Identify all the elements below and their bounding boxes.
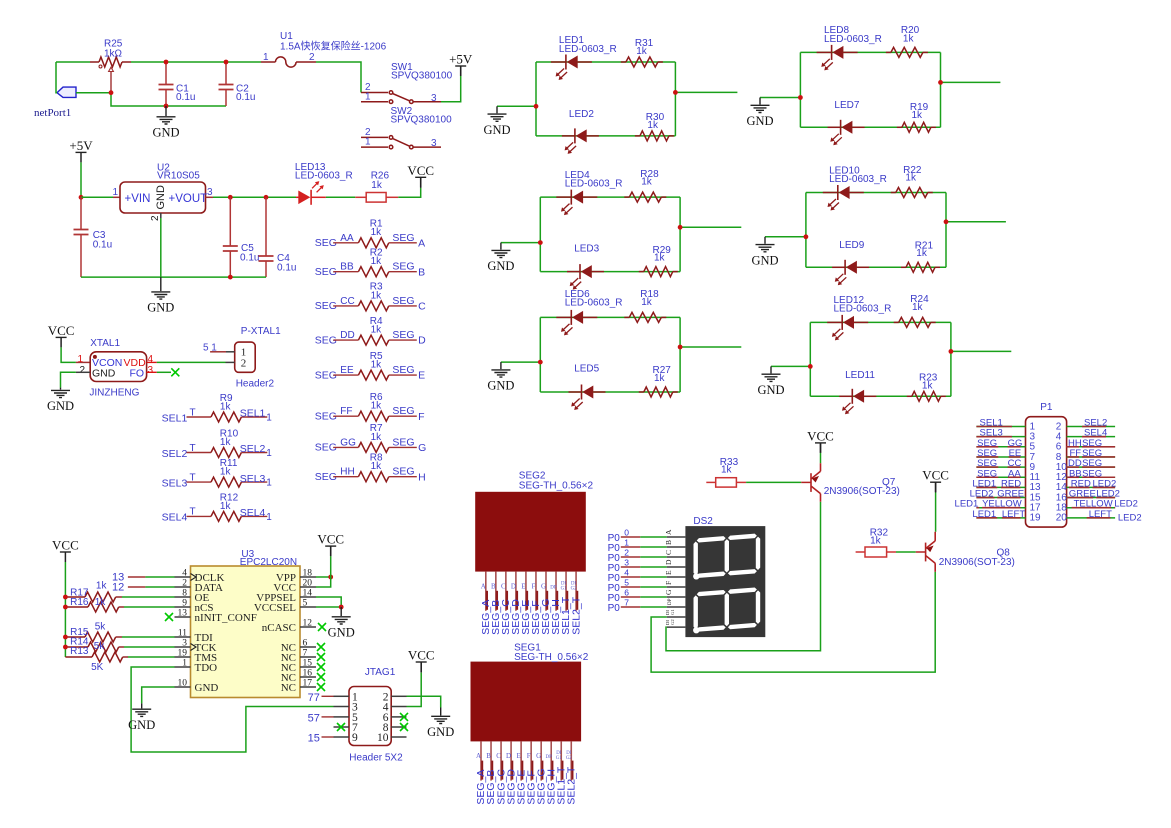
lead C1 bottom [165, 90, 167, 107]
capacitor C3 [74, 230, 89, 235]
pin 3 JTAG1 [334, 706, 350, 708]
LED LED2 [562, 135, 575, 137]
pin 20 U3 VCC [300, 586, 316, 588]
svg-text:1k: 1k [371, 256, 383, 267]
ground GND at LED12 group [762, 366, 781, 381]
pin 10 SEG1 [570, 741, 572, 780]
lead XTAL pin1 [76, 361, 90, 363]
wire LED6 group gnd [501, 361, 540, 363]
regulator U2 [120, 182, 206, 213]
svg-text:1k: 1k [641, 177, 653, 188]
svg-text:FF: FF [340, 406, 352, 417]
lead C2 bottom [225, 90, 227, 107]
svg-text:+5V: +5V [449, 52, 473, 67]
junction bottom rail C5 [228, 275, 233, 280]
svg-text:GND: GND [195, 682, 219, 694]
svg-text:EE: EE [340, 365, 354, 376]
svg-text:1k: 1k [220, 501, 232, 512]
svg-text:SEL4: SEL4 [240, 507, 266, 519]
no-connect X NC 677 [317, 673, 325, 681]
svg-text:1k: 1k [371, 360, 383, 371]
power +5V at U2 [76, 151, 87, 153]
wire P1 pin 14 [1067, 486, 1116, 488]
svg-text:VCC: VCC [52, 538, 79, 553]
svg-text:GND: GND [147, 301, 174, 315]
svg-text:G2: G2 [670, 619, 675, 625]
svg-text:NC: NC [281, 682, 296, 694]
resistor R23 [907, 395, 912, 397]
svg-text:3: 3 [148, 365, 154, 376]
svg-text:SEG: SEG [392, 261, 414, 273]
transistor Q8 2N3906 [926, 532, 936, 572]
svg-text:SEG: SEG [392, 466, 414, 478]
svg-text:10: 10 [178, 679, 188, 689]
svg-text:LED3: LED3 [574, 243, 599, 254]
svg-text:T: T [190, 443, 196, 454]
svg-text:1k: 1k [922, 380, 934, 391]
ground GND at LED1 group [488, 106, 507, 121]
wire LED4 group left rail [539, 197, 541, 272]
power VCC at JTAG [416, 661, 427, 663]
svg-text:GND: GND [128, 718, 155, 732]
wire P1 pin 16 [1067, 497, 1116, 499]
svg-text:LED-0603_R: LED-0603_R [834, 304, 892, 315]
junction LED12 output [949, 349, 954, 354]
pin 1 JTAG1 [334, 695, 350, 697]
wire LED4 group top [540, 196, 680, 198]
pin 16 U3 NC [300, 676, 316, 678]
pin 2 SEG1 [490, 741, 492, 780]
ground GND at LED8 group [751, 98, 770, 113]
wire bottom rail top-left [111, 93, 226, 106]
svg-text:2N3906(SOT-23): 2N3906(SOT-23) [824, 486, 900, 497]
svg-text:1k: 1k [371, 325, 383, 336]
svg-text:H: H [418, 471, 426, 483]
wire LED12 group output [951, 350, 1011, 352]
pin 8 JTAG1 [391, 726, 406, 728]
LED LED12 [827, 321, 842, 323]
svg-text:U1: U1 [280, 31, 293, 42]
wire VPP [316, 576, 331, 578]
fuse U1 [261, 61, 276, 63]
wire P1 pin 13 [976, 486, 1025, 488]
svg-text:5K: 5K [91, 662, 104, 673]
LED LED8 [817, 51, 832, 53]
svg-text:11: 11 [178, 629, 187, 639]
resistor R26 [355, 196, 366, 198]
wire LED6 group left rail [539, 317, 541, 392]
svg-text:VCCSEL: VCCSEL [254, 602, 296, 614]
wire LED6 group top [540, 316, 680, 318]
svg-text:nCASC: nCASC [262, 622, 296, 634]
wire LED13 to R26 [326, 196, 355, 198]
wire 12 green [145, 586, 174, 588]
svg-text:FO: FO [130, 367, 145, 379]
wire VCC to JTAG pin4 [407, 673, 422, 707]
svg-text:1: 1 [624, 538, 629, 548]
svg-text:1: 1 [263, 52, 269, 63]
display DS2 [685, 526, 765, 637]
lead XTAL pin4 [147, 361, 157, 363]
pin 6 JTAG1 [391, 716, 406, 718]
LED LED11 [839, 395, 852, 397]
ground GND at LED4 group [491, 243, 510, 258]
svg-text:LED2: LED2 [1114, 499, 1138, 510]
net label SEG_G SEG1 [541, 761, 543, 780]
wire LED1 group right rail [674, 62, 676, 136]
no-connect X JTAG pin7 [337, 723, 345, 731]
wire LED8 group left rail [799, 52, 801, 127]
wire P1 pin 4 [1067, 436, 1116, 438]
header P1 [1026, 417, 1067, 527]
lead C4 top [265, 197, 267, 255]
svg-text:SEG: SEG [392, 295, 414, 307]
svg-text:18: 18 [303, 569, 313, 579]
pin 9 SEG2 [565, 572, 567, 611]
svg-text:2: 2 [624, 548, 629, 558]
svg-text:G: G [418, 442, 426, 454]
svg-text:2: 2 [182, 579, 187, 589]
wire R25 to fuse [131, 61, 261, 63]
svg-text:G2: G2 [566, 756, 572, 761]
pin 8 U3 OE [175, 596, 191, 598]
svg-text:5: 5 [624, 578, 629, 588]
power VCC at R26 [415, 176, 426, 178]
svg-text:DP: DP [668, 598, 673, 605]
junction R17 [63, 595, 68, 600]
svg-text:SEL2_T: SEL2_T [570, 596, 582, 635]
net label SEG_A SEG1 [481, 761, 483, 780]
wire LED12 group left rail [809, 322, 811, 396]
wire P1 pin 7 [976, 456, 1025, 458]
lead LED13 left [296, 196, 299, 198]
svg-text:F: F [418, 411, 424, 423]
LED LED5 [569, 391, 582, 393]
svg-text:SPVQ380100: SPVQ380100 [391, 70, 453, 81]
svg-text:G1: G1 [556, 756, 562, 761]
wire LED6 group right rail [679, 317, 681, 392]
LED LED7 [828, 126, 841, 128]
svg-text:GND: GND [92, 367, 116, 379]
pin 2 U3 DATA [175, 586, 191, 588]
resistor R13 [65, 656, 92, 658]
wire VPP to VCC [330, 556, 332, 577]
lead XTAL pin2 [76, 371, 90, 373]
wire LED1 group top [536, 61, 675, 63]
svg-text:1k: 1k [916, 248, 928, 259]
resistor R29 [639, 271, 644, 273]
wire fuse to SW1 [316, 62, 361, 93]
svg-text:SEG-TH_0.56×2: SEG-TH_0.56×2 [514, 652, 589, 663]
svg-text:E: E [516, 752, 520, 760]
switch SW1 [361, 91, 441, 104]
svg-text:R13: R13 [70, 646, 89, 657]
svg-text:15: 15 [308, 732, 320, 744]
wire LED8 group output [941, 81, 1001, 83]
resistor R27 [639, 391, 644, 393]
wire P1 pin 19 [976, 517, 1025, 519]
lead C3 bottom [80, 235, 82, 278]
junction LED4 gnd [538, 240, 543, 245]
svg-text:A: A [481, 582, 486, 590]
pin 17 U3 NC [300, 686, 316, 688]
wire 13 red [128, 576, 145, 578]
svg-text:57: 57 [308, 712, 320, 724]
wire P1 pin 12 [1067, 476, 1116, 478]
net label SEG_B SEG2 [496, 591, 498, 610]
lead U2 pin3 [206, 196, 214, 198]
svg-text:T: T [190, 507, 196, 518]
wire +5V to U2 node [80, 162, 82, 197]
svg-text:1k: 1k [96, 580, 108, 591]
wire LED1 group gnd [497, 105, 536, 107]
capacitor C5 [223, 246, 238, 251]
wire LED12 group right rail [950, 322, 952, 396]
svg-text:AA: AA [340, 233, 354, 244]
svg-text:2: 2 [79, 365, 85, 376]
pin DI G1 DS2 [667, 616, 686, 618]
net label SEG_E SEG1 [521, 761, 523, 780]
svg-text:1k: 1k [371, 461, 383, 472]
wire P1 pin 6 [1067, 446, 1116, 448]
svg-text:0.1u: 0.1u [277, 263, 296, 274]
resistor R32 [856, 551, 865, 553]
wire LED12 group top [810, 321, 951, 323]
lead R25 right [122, 61, 131, 63]
wire P1 pin 9 [976, 466, 1025, 468]
junction C4 top [264, 195, 269, 200]
wire P1 pin 11 [976, 476, 1025, 478]
svg-text:1k: 1k [220, 437, 232, 448]
svg-text:1k: 1k [220, 402, 232, 413]
svg-text:GND: GND [746, 114, 773, 128]
pin 7 SEG2 [545, 572, 547, 611]
pin 10 JTAG1 [391, 736, 406, 738]
crystal oscillator XTAL1 [90, 352, 146, 382]
net label SEG_A SEG2 [486, 591, 488, 610]
svg-text:13: 13 [178, 609, 188, 619]
svg-text:D: D [418, 335, 426, 347]
pin 18 U3 VPP [300, 576, 316, 578]
svg-text:E: E [521, 582, 525, 590]
svg-text:HH: HH [340, 467, 354, 478]
svg-text:2: 2 [150, 215, 161, 221]
net label SEL2_T SEG1 [571, 761, 573, 780]
power VCC at XTAL [56, 336, 67, 338]
svg-text:1k: 1k [912, 110, 924, 121]
pin 4 U3 DCLK [175, 576, 191, 578]
wire LED1 group bottom [536, 135, 675, 137]
svg-text:G2: G2 [571, 586, 577, 591]
resistor R22 [891, 192, 896, 194]
power VCC at Q7 [815, 442, 826, 444]
svg-text:GND: GND [483, 123, 510, 137]
wire XTAL pin2 to GND [61, 372, 76, 387]
wire R14 to TCK [124, 646, 175, 648]
wire P1 pin 1 [976, 426, 1025, 428]
junction C2 top [224, 60, 229, 65]
junction R15 [63, 635, 68, 640]
svg-text:VR10S05: VR10S05 [157, 171, 200, 182]
resistor R33 [706, 481, 715, 483]
pin 15 U3 NC [300, 666, 316, 668]
svg-text:LED9: LED9 [839, 240, 864, 251]
wire LED10 group top [806, 192, 946, 194]
junction LED1 gnd [534, 104, 539, 109]
lead LED13 right [311, 196, 326, 198]
pin DI G2 DS2 [667, 626, 686, 628]
pin 19 U3 TMS [175, 656, 191, 658]
wire VCC to Q7 emitter [820, 453, 822, 463]
svg-text:LED-0603_R: LED-0603_R [829, 174, 887, 185]
svg-text:F: F [527, 752, 531, 760]
svg-text:4: 4 [182, 569, 187, 579]
pin 12 U3 nCASC [300, 626, 316, 628]
lead P-XTAL1 pin2 [226, 361, 235, 363]
svg-text:LED-0603_R: LED-0603_R [559, 44, 617, 55]
lead U2 pin1 [113, 196, 120, 198]
svg-text:BB: BB [340, 262, 354, 273]
svg-text:LED11: LED11 [845, 370, 875, 381]
svg-text:SEL2_T: SEL2_T [565, 766, 577, 805]
wire U2 bottom rail [81, 276, 266, 278]
svg-text:G1: G1 [670, 609, 675, 615]
junction C1 bottom [164, 104, 169, 109]
display segment block SEG1 [471, 662, 582, 742]
svg-text:SEG-TH_0.56×2: SEG-TH_0.56×2 [519, 481, 594, 492]
svg-text:1k: 1k [647, 120, 659, 131]
junction VCCSEL [339, 605, 344, 610]
lead U2 pin2 [160, 213, 162, 218]
svg-text:19: 19 [1030, 513, 1042, 524]
junction LED4 output [678, 225, 683, 230]
svg-text:+VIN: +VIN [125, 193, 151, 205]
wire 12 red [128, 586, 145, 588]
svg-text:VCC: VCC [408, 648, 435, 663]
ground GND under U3 [132, 703, 151, 716]
wire LED1 group output [675, 91, 737, 93]
svg-text:VCC: VCC [807, 428, 834, 443]
wire R33 to Q7 base [746, 481, 801, 483]
wire LED6 group bottom [540, 391, 680, 393]
wire SW1 to +5V [441, 76, 461, 102]
net label SEL1_T SEG1 [561, 761, 563, 780]
svg-text:SEG: SEG [392, 329, 414, 341]
pin 5 SEG2 [525, 572, 527, 611]
svg-text:7: 7 [303, 649, 308, 659]
wire LED8 group gnd [760, 97, 800, 99]
wire U2 VOUT [213, 196, 296, 198]
resistor R18 [624, 316, 629, 318]
wire LED6 group output [680, 346, 741, 348]
wire VPPSEL down [316, 597, 341, 607]
wire LED8 group bottom [800, 126, 940, 128]
wire netPort to junction [76, 92, 111, 94]
svg-text:2: 2 [309, 52, 315, 63]
capacitor C2 [219, 85, 234, 90]
svg-text:JINZHENG: JINZHENG [89, 387, 139, 398]
wire to U2 VIN [81, 196, 113, 198]
wire netPort top left [56, 61, 90, 63]
ground GND at JTAG [431, 708, 450, 724]
junction R16 [63, 605, 68, 610]
junction LED8 output [938, 80, 943, 85]
wire 13 green [145, 576, 174, 578]
wire LED10 group gnd [765, 236, 806, 238]
svg-text:EPC2LC20N: EPC2LC20N [240, 557, 297, 568]
wire TDO to JTAG3 [131, 667, 333, 752]
wire P1 pin 8 [1067, 456, 1116, 458]
DS2 decimal point lower [693, 627, 699, 633]
svg-text:F: F [664, 581, 673, 585]
svg-text:1: 1 [77, 354, 83, 365]
resistor R31 [621, 61, 626, 63]
no-connect X NC 647 [317, 643, 325, 651]
wire R13 to TMS [128, 656, 175, 658]
wire VCC to XTAL pin1 [61, 347, 76, 362]
svg-text:VCC: VCC [317, 532, 344, 547]
pin 9 U3 nCS [175, 606, 191, 608]
pin 1 SEG1 [480, 741, 482, 780]
junction LED10 output [944, 219, 949, 224]
svg-text:G: G [536, 752, 541, 760]
svg-text:1k: 1k [721, 465, 733, 476]
ground GND at LED10 group [756, 237, 775, 252]
net label SEG_H SEG2 [556, 591, 558, 610]
svg-text:A: A [476, 752, 481, 760]
svg-text:CC: CC [340, 296, 354, 307]
svg-text:Header 5X2: Header 5X2 [349, 753, 403, 764]
svg-text:VCC: VCC [407, 163, 434, 178]
svg-text:9: 9 [182, 599, 187, 609]
net label SEG_D SEG2 [516, 591, 518, 610]
pin 4 SEG2 [515, 572, 517, 611]
net label SEG_F SEG1 [531, 761, 533, 780]
no-connect X nCASC [318, 623, 326, 631]
svg-text:6: 6 [624, 588, 629, 598]
svg-text:1k: 1k [905, 173, 917, 184]
svg-text:A: A [418, 237, 425, 249]
wire VCC pin up [316, 577, 331, 587]
svg-text:1k: 1k [371, 290, 383, 301]
svg-text:B: B [418, 266, 425, 278]
pin 9 JTAG1 [334, 736, 350, 738]
wire LED1 group left rail [535, 62, 537, 136]
svg-text:C: C [418, 301, 426, 313]
LED LED6 [556, 316, 571, 318]
svg-text:5k: 5k [94, 641, 106, 652]
ground GND under XTAL [51, 388, 70, 398]
svg-text:7: 7 [624, 598, 629, 608]
resistor R15 [65, 636, 85, 638]
svg-text:LED-0603_R: LED-0603_R [565, 298, 623, 309]
pin 8 SEG2 [555, 572, 557, 611]
svg-text:XTAL1: XTAL1 [90, 338, 120, 349]
svg-text:+VOUT: +VOUT [169, 193, 208, 205]
svg-text:GND: GND [155, 185, 167, 210]
wire netPort left rail [56, 62, 57, 93]
svg-text:1k: 1k [912, 302, 924, 313]
lead C3 top [80, 197, 82, 229]
pin 2 JTAG1 [391, 695, 406, 697]
svg-text:JTAG1: JTAG1 [365, 667, 396, 678]
lead Q8 base [916, 551, 926, 553]
svg-text:1kΩ: 1kΩ [104, 49, 123, 60]
wire U2 GND down [160, 218, 162, 277]
svg-text:3: 3 [431, 138, 437, 149]
pin 3 SEG1 [500, 741, 502, 780]
svg-text:E: E [664, 570, 673, 575]
